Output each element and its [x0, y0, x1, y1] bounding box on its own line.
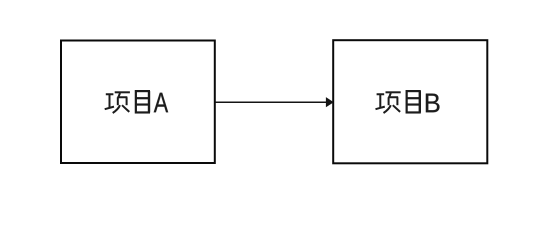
label 项目 (box B) — [376, 91, 421, 113]
arrow from 项目A to 项目B — [216, 98, 334, 107]
label 项目 (box A) — [105, 91, 150, 113]
box 项目B — [333, 40, 487, 163]
letter B — [426, 94, 440, 113]
letter A — [154, 93, 168, 112]
box 项目A — [61, 41, 215, 164]
